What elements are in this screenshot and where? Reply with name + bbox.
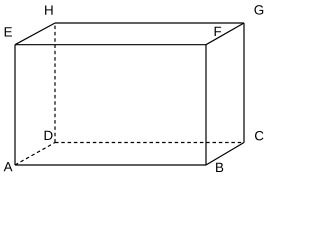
vertex label A bbox=[4, 162, 13, 171]
edge EH (top left depth) bbox=[15, 23, 55, 45]
vertex label B bbox=[216, 163, 223, 172]
vertex label G bbox=[254, 5, 263, 14]
vertex label F bbox=[215, 27, 222, 36]
edge AD hidden (bottom left depth, dashed) bbox=[15, 143, 55, 166]
edge FG (top right depth) bbox=[206, 23, 244, 45]
edge FB (front right vertical) bbox=[205, 45, 207, 165]
edge GC (back right vertical) bbox=[243, 23, 245, 143]
vertex label H bbox=[45, 5, 52, 14]
vertex label C bbox=[255, 131, 263, 140]
edge AB (front bottom) bbox=[15, 164, 206, 166]
vertex label E bbox=[5, 27, 12, 36]
edge EF (front top) bbox=[15, 44, 206, 46]
edge BC (bottom right depth) bbox=[206, 143, 244, 166]
edge DH hidden (back left vertical, dashed) bbox=[54, 23, 56, 143]
vertex label D bbox=[45, 131, 53, 140]
edge EA (front left vertical) bbox=[14, 45, 16, 165]
edge DC hidden (back bottom, dashed) bbox=[55, 142, 244, 144]
edge HG (back top) bbox=[55, 22, 244, 24]
